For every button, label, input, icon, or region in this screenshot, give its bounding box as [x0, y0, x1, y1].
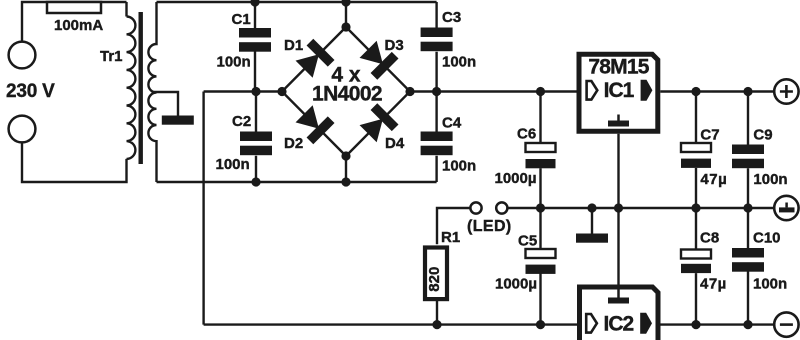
- diode D1: [293, 39, 334, 80]
- svg-text:D3: D3: [385, 37, 404, 54]
- svg-text:R1: R1: [441, 229, 460, 246]
- mains terminal bottom: [9, 116, 36, 143]
- svg-text:D2: D2: [284, 135, 303, 152]
- junction node bridge right (DC+): [405, 87, 414, 96]
- wire top rail AC1: [157, 1, 437, 3]
- junction dots group: [250, 0, 752, 329]
- svg-text:47µ: 47µ: [700, 171, 727, 188]
- svg-text:C1: C1: [232, 11, 251, 28]
- svg-text:C2: C2: [232, 113, 251, 130]
- diode D2: [293, 103, 334, 144]
- wire mid-left rail to bridge: [204, 90, 282, 92]
- diode D3: [357, 39, 398, 80]
- svg-text:Tr1: Tr1: [100, 48, 123, 65]
- capacitor C1: [217, 2, 272, 92]
- capacitor C4: [421, 92, 477, 183]
- resistor R1: [425, 229, 460, 325]
- svg-text:C3: C3: [442, 9, 461, 26]
- junction node C10/-15V rail: [743, 320, 752, 329]
- transformer core: [139, 12, 143, 164]
- wire mains loop: [22, 2, 127, 182]
- bridge wires (diamond): [282, 2, 410, 182]
- junction node C1-C2/mid rail: [251, 87, 260, 96]
- svg-text:IC1: IC1: [604, 79, 635, 102]
- svg-text:D4: D4: [385, 135, 405, 152]
- terminal ground: [774, 196, 798, 220]
- svg-text:100n: 100n: [753, 171, 787, 188]
- capacitor C3: [421, 2, 477, 92]
- svg-text:D1: D1: [284, 37, 303, 54]
- svg-text:100n: 100n: [442, 158, 476, 175]
- capacitor C6 electrolytic: [494, 92, 555, 209]
- svg-text:47µ: 47µ: [700, 276, 727, 293]
- capacitor C8 electrolytic: [681, 208, 727, 325]
- svg-text:C4: C4: [442, 115, 462, 132]
- svg-text:230 V: 230 V: [6, 81, 55, 102]
- junction node regulator ground: [614, 203, 623, 212]
- junction node C9/+15V rail: [743, 87, 752, 96]
- svg-text:100n: 100n: [217, 54, 251, 71]
- regulator IC2: [580, 287, 659, 340]
- mains terminal top: [9, 42, 36, 69]
- svg-text:1000µ: 1000µ: [495, 276, 537, 293]
- junction node bridge top/rail: [341, 0, 350, 7]
- junction node C6/DC+ rail: [536, 87, 545, 96]
- wire ground rail: [437, 208, 774, 244]
- junction node C8/-15V rail: [691, 320, 700, 329]
- capacitor C5 electrolytic: [495, 208, 556, 325]
- svg-text:C5: C5: [518, 233, 537, 250]
- wire minus rail: [204, 323, 775, 325]
- wire bottom rail AC2: [157, 181, 437, 183]
- wire regulators ground column: [617, 134, 619, 287]
- junction node C9-C10/ground rail: [743, 203, 752, 212]
- capacitor C9: [732, 92, 788, 209]
- diode D4: [357, 103, 398, 144]
- svg-text:1N4002: 1N4002: [312, 83, 382, 106]
- wire center tap: [152, 92, 178, 116]
- wire bridge right to IC1 input: [410, 90, 577, 92]
- junction node bridge bottom vertex: [341, 151, 350, 160]
- capacitor C10: [732, 208, 787, 325]
- junction node C7/+15V rail: [691, 87, 700, 96]
- junction node C1/top rail: [250, 0, 259, 7]
- ground bar center tap: [162, 116, 194, 125]
- svg-text:100n: 100n: [753, 276, 787, 293]
- ground bar rail symbol: [591, 208, 593, 234]
- svg-text:IC2: IC2: [604, 313, 634, 336]
- junction node bridge top vertex: [341, 22, 350, 31]
- svg-text:C10: C10: [753, 229, 781, 246]
- svg-text:C9: C9: [753, 127, 772, 144]
- junction node C7-C8/ground rail: [691, 203, 700, 212]
- svg-text:100mA: 100mA: [54, 17, 103, 34]
- capacitor C7 electrolytic: [681, 92, 727, 209]
- junction node C5-C6/ground rail: [536, 203, 545, 212]
- junction node ground symbol: [587, 203, 596, 212]
- junction node C3-C4/DC+ rail: [432, 87, 441, 96]
- junction node R1/minus rail: [432, 320, 441, 329]
- svg-text:C8: C8: [700, 229, 719, 246]
- svg-text:100n: 100n: [216, 156, 250, 173]
- LED terminal right: [496, 202, 507, 213]
- capacitor C2: [216, 92, 273, 183]
- svg-text:1000µ: 1000µ: [494, 170, 536, 187]
- regulator IC1 78M15: [579, 54, 658, 131]
- terminal plus: [774, 79, 798, 103]
- junction node C2/bottom AC rail: [251, 177, 260, 186]
- svg-text:820: 820: [426, 267, 443, 292]
- junction node bridge left (DC-): [277, 87, 286, 96]
- svg-text:78M15: 78M15: [588, 56, 649, 79]
- transformer Tr1 secondary winding: [148, 2, 156, 182]
- svg-text:C7: C7: [700, 127, 719, 144]
- wire IC1 output to plus terminal: [660, 90, 774, 92]
- LED terminal left: [470, 202, 481, 213]
- svg-text:C6: C6: [517, 126, 536, 143]
- svg-text:(LED): (LED): [467, 218, 512, 235]
- transformer Tr1 primary winding: [127, 17, 136, 159]
- wire DC minus vertical: [202, 92, 204, 325]
- terminal minus: [774, 312, 798, 336]
- junction node bridge bottom/rail: [341, 177, 350, 186]
- svg-text:100n: 100n: [442, 54, 476, 71]
- junction node C5/minus rail: [536, 320, 545, 329]
- fuse F1 100mA: [47, 2, 103, 34]
